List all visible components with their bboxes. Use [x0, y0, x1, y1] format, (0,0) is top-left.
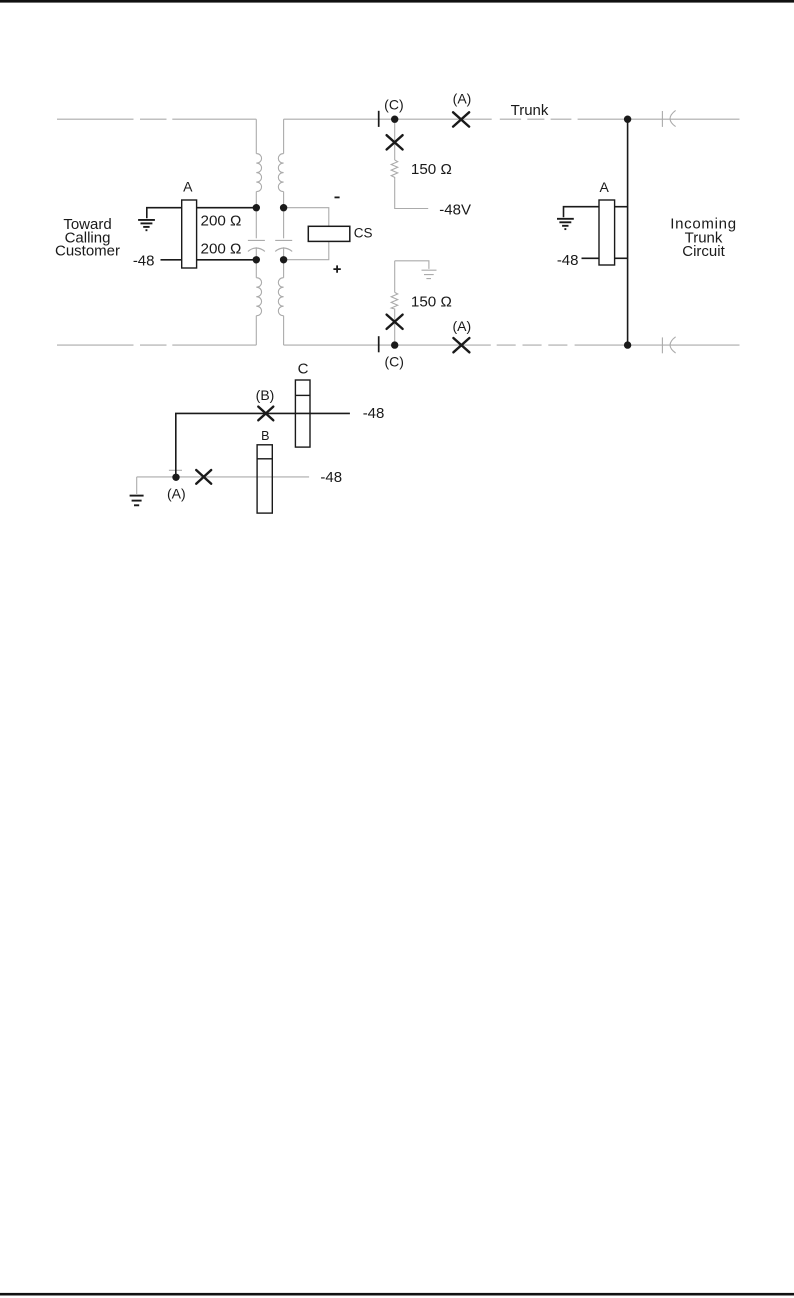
svg-text:150 Ω: 150 Ω [411, 161, 452, 178]
svg-text:(C): (C) [384, 97, 403, 113]
svg-text:Circuit: Circuit [682, 243, 725, 260]
svg-text:(A): (A) [167, 486, 186, 502]
svg-text:-48: -48 [133, 252, 155, 269]
svg-text:A: A [183, 178, 193, 194]
svg-text:-48V: -48V [439, 201, 471, 218]
svg-text:-48: -48 [320, 469, 342, 486]
svg-text:(C): (C) [384, 353, 403, 369]
svg-text:-48: -48 [557, 252, 579, 269]
svg-text:CS: CS [354, 226, 373, 241]
svg-text:(B): (B) [256, 387, 275, 403]
svg-text:Trunk: Trunk [511, 102, 549, 119]
svg-text:A: A [600, 179, 610, 195]
svg-text:150 Ω: 150 Ω [411, 293, 452, 310]
svg-text:B: B [261, 429, 269, 443]
svg-text:-48: -48 [363, 405, 385, 422]
svg-text:200 Ω: 200 Ω [201, 212, 242, 229]
svg-text:Customer: Customer [55, 243, 120, 260]
svg-text:C: C [298, 361, 309, 378]
svg-text:(A): (A) [452, 318, 471, 334]
svg-text:200 Ω: 200 Ω [201, 241, 242, 258]
svg-text:(A): (A) [453, 90, 472, 106]
